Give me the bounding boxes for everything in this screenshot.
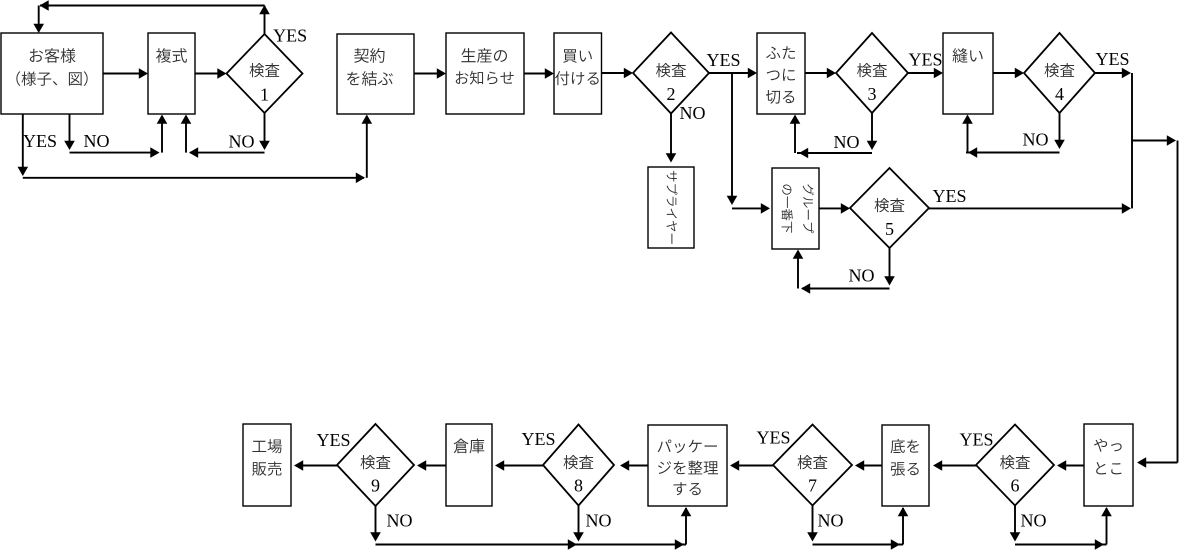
process box B14 工場販売 xyxy=(243,424,291,506)
wire D9/D8 NO: bottom horizontal to B12 xyxy=(376,544,687,546)
process box B9 グループの一番下 (vertical) xyxy=(772,168,819,249)
wire B1 YES: bottom horizontal to B3 xyxy=(23,177,364,179)
svg-text:NO: NO xyxy=(849,266,875,286)
wire B2 to D1 xyxy=(195,73,225,75)
wire D3 NO: horizontal left xyxy=(797,152,872,154)
svg-text:YES: YES xyxy=(933,186,967,206)
process box B5 買い付ける xyxy=(554,33,602,114)
wire D7 NO: up into B11 bottom xyxy=(902,508,904,545)
svg-text:YES: YES xyxy=(707,50,741,70)
svg-text:7: 7 xyxy=(808,476,817,496)
wire D3 NO: down xyxy=(871,113,873,148)
process box B3 契約を結ぶ xyxy=(337,34,414,114)
wire D6 NO: down xyxy=(1014,506,1016,540)
wire right rail down (x=1132) xyxy=(1131,73,1133,208)
process box B13 倉庫 xyxy=(446,424,492,506)
wire branch right into B9 xyxy=(732,207,768,209)
wire D1 NO: down xyxy=(264,113,266,148)
svg-text:YES: YES xyxy=(273,26,307,46)
process box B10 やっとこ xyxy=(1084,424,1133,506)
wire D1 YES feedback: up xyxy=(264,6,266,35)
decision D9 検査9 xyxy=(337,424,414,506)
wire branch down from YES2 line xyxy=(731,73,733,203)
wire D8 NO: down xyxy=(578,506,580,540)
wire D7 YES to B12 xyxy=(732,465,773,467)
svg-text:NO: NO xyxy=(387,511,413,531)
decision D8 検査8 xyxy=(543,425,614,506)
svg-text:NO: NO xyxy=(834,132,860,152)
wire D7 NO: bottom horizontal to B11 xyxy=(813,544,904,546)
wire D5 NO: down xyxy=(889,248,891,283)
svg-text:2: 2 xyxy=(667,84,676,104)
wire B1 NO: horizontal right xyxy=(70,152,159,154)
wire B1 YES: up into B3 bottom xyxy=(366,116,368,178)
wire B1 NO: up into B2 bottom xyxy=(161,116,163,153)
wire B1 YES: down xyxy=(22,114,24,174)
wire D4 NO: horizontal left xyxy=(966,152,1060,154)
wire B4 to B5 xyxy=(524,73,552,75)
svg-text:YES: YES xyxy=(757,428,791,448)
wire B13 to D9 xyxy=(419,465,446,467)
wire D7 NO: down xyxy=(812,506,814,540)
wire B11 to D7 xyxy=(857,465,882,467)
svg-text:YES: YES xyxy=(960,430,994,450)
svg-text:NO: NO xyxy=(229,132,255,152)
svg-text:NO: NO xyxy=(586,511,612,531)
process box B4 生産のお知らせ xyxy=(446,33,524,114)
wire D3 NO: up into B6 bottom xyxy=(794,116,796,153)
wire B1 to B2 xyxy=(103,73,146,75)
decision D6 検査6 xyxy=(976,425,1054,506)
svg-text:NO: NO xyxy=(84,131,110,151)
wire B5 to D2 xyxy=(602,72,632,74)
wire D9 YES to B14 xyxy=(296,465,337,467)
decision D7 検査7 xyxy=(773,425,852,506)
svg-text:YES: YES xyxy=(522,429,556,449)
wire D8 YES to B13 xyxy=(497,465,543,467)
wire D5 YES right xyxy=(929,207,1129,209)
svg-text:YES: YES xyxy=(1096,49,1130,69)
wire D9 NO: down xyxy=(375,506,377,539)
wire D5 NO: up into B9 bottom xyxy=(797,251,799,289)
svg-text:6: 6 xyxy=(1011,476,1020,496)
decision D3 検査3 xyxy=(836,33,908,113)
svg-text:9: 9 xyxy=(371,476,380,496)
wire B12 to D8 xyxy=(622,465,648,467)
wire D1 YES feedback: top horizontal xyxy=(40,5,265,7)
wire D6 YES to B11 xyxy=(935,465,976,467)
decision D5 検査5 xyxy=(850,168,929,248)
wire D1 NO: horizontal left xyxy=(190,152,265,154)
svg-text:NO: NO xyxy=(680,103,706,123)
wire B7 to D4 xyxy=(993,72,1022,74)
wire B10 to D6 xyxy=(1059,465,1084,467)
wire D1 YES feedback: down into B1 top xyxy=(38,6,40,32)
wire B3 to B4 xyxy=(414,73,444,75)
decision D1 検査1 xyxy=(227,34,303,113)
wire into B10 right xyxy=(1139,462,1178,464)
svg-text:NO: NO xyxy=(1021,511,1047,531)
wire NO: up into B12 bottom xyxy=(685,508,687,545)
svg-text:NO: NO xyxy=(818,511,844,531)
wire B1 NO: down xyxy=(69,114,71,148)
svg-text:1: 1 xyxy=(260,85,269,105)
svg-text:YES: YES xyxy=(909,50,943,70)
wire D1 NO: up into B2 bottom xyxy=(185,116,187,153)
svg-text:3: 3 xyxy=(868,84,877,104)
process box B12 パッケージを整理する xyxy=(648,425,727,506)
process box B2 複式 xyxy=(148,33,195,114)
wire D5 NO: horizontal left xyxy=(802,288,890,290)
wire D4 NO: up into B7 bottom xyxy=(967,116,969,153)
wire B9 to D5 xyxy=(819,207,848,209)
svg-text:8: 8 xyxy=(574,476,583,496)
process box B11 底を張る xyxy=(882,425,929,506)
wire D6 NO: bottom horizontal to B10 xyxy=(1015,544,1107,546)
wire D4 YES right xyxy=(1095,72,1129,74)
wire D4 NO: down xyxy=(1059,113,1061,147)
svg-text:5: 5 xyxy=(885,219,894,239)
process box B6 ふたつに切る xyxy=(757,33,805,114)
process box B1 customer (お客様/様子、図) xyxy=(1,33,103,114)
svg-text:YES: YES xyxy=(317,430,351,450)
decision D4 検査4 xyxy=(1024,33,1095,113)
svg-text:YES: YES xyxy=(23,131,57,151)
wire D2 NO down to B8 xyxy=(670,114,672,161)
process box B8 サプライヤー (vertical) xyxy=(648,167,694,248)
wire branch right at y=140.5 xyxy=(1132,140,1174,142)
decision D2 検査2 xyxy=(633,33,709,114)
svg-text:4: 4 xyxy=(1055,84,1064,104)
wire far right rail down (x=1177.5) xyxy=(1177,141,1179,463)
wire D6 NO: up into B10 bottom xyxy=(1106,508,1108,545)
wire D3 YES to B7 xyxy=(908,72,941,74)
wire B6 to D3 xyxy=(805,72,834,74)
wire D2 YES to B6 xyxy=(709,72,755,74)
svg-text:NO: NO xyxy=(1023,130,1049,150)
process box B7 縫い xyxy=(943,33,993,114)
